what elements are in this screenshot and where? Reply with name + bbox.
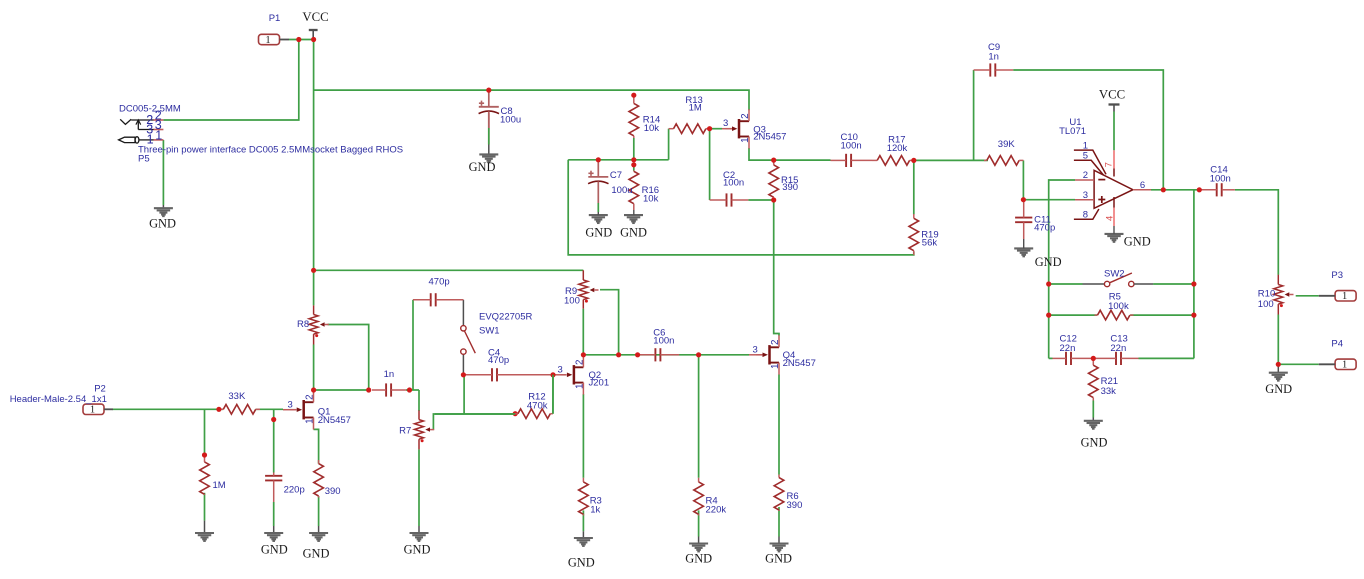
junction C4/SW1: [461, 372, 466, 377]
svg-text:P4: P4: [1331, 338, 1343, 349]
junction SW2 right: [1191, 281, 1196, 317]
svg-text:1: 1: [305, 418, 316, 423]
junction Q3 gate node: [707, 126, 712, 131]
wire: 220p branch: [273, 409, 275, 472]
wire: C2 right lead to R15 node: [748, 199, 773, 201]
svg-text:5: 5: [1083, 151, 1088, 162]
ground GND C11: [1014, 248, 1061, 268]
wire: Q1 source jog down to 390: [314, 429, 319, 463]
wire: R4 lower lead to GND: [698, 510, 700, 543]
svg-text:TL071: TL071: [1059, 126, 1086, 137]
svg-text:GND: GND: [261, 542, 288, 556]
capacitor C6 100n: [638, 328, 680, 362]
svg-text:2N5457: 2N5457: [318, 415, 351, 426]
wire: Q4 source down to R6: [778, 375, 780, 475]
svg-text:GND: GND: [685, 551, 712, 565]
wire: 1M lower lead to GND: [204, 493, 206, 533]
svg-text:3: 3: [723, 118, 728, 129]
svg-text:GND: GND: [1265, 382, 1292, 396]
transistor Q4 2N5457: [749, 335, 816, 374]
capacitor C13 22n: [1093, 334, 1138, 365]
wire: R7 lower lead to GND: [418, 449, 420, 533]
junction C6 left: [635, 352, 640, 357]
svg-text:2: 2: [740, 113, 751, 118]
wire: Q3 source to C10/R15: [749, 148, 831, 160]
svg-text:1: 1: [1342, 291, 1347, 302]
junction R16 bus: [631, 157, 636, 167]
resistor 33K input: [219, 391, 260, 414]
connector P1: [259, 13, 290, 46]
junction 1n right: [407, 387, 412, 392]
power VCC top: [302, 10, 328, 40]
svg-text:P1: P1: [269, 13, 281, 24]
svg-text:GND: GND: [568, 555, 595, 569]
svg-text:1: 1: [265, 35, 270, 46]
transistor Q3 2N5457: [722, 109, 786, 148]
wire: VCC node down to DC005 pin2: [163, 40, 298, 121]
junction 1M tap: [202, 452, 207, 457]
connector P3: [1319, 270, 1356, 302]
junction P4 node: [1276, 362, 1281, 367]
svg-text:1: 1: [1342, 360, 1347, 371]
capacitor 470p top: [413, 276, 463, 306]
trimmer R9: [564, 270, 599, 308]
junction R12 left: [513, 411, 518, 416]
junction 1n left: [366, 387, 371, 392]
svg-text:100u: 100u: [611, 185, 632, 196]
ground GND 220p: [261, 533, 288, 556]
svg-text:6: 6: [1140, 180, 1145, 191]
wire: R9 bottom to Q2 drain node: [582, 309, 584, 355]
svg-text:22n: 22n: [1060, 343, 1076, 354]
svg-text:P2: P2: [94, 383, 106, 394]
wire: R17 right to 39K: [914, 159, 988, 161]
svg-text:1M: 1M: [689, 102, 702, 113]
wire: 1M branch: [204, 409, 206, 455]
trimmer R7: [399, 410, 434, 449]
wire: R14 bottom to bus: [633, 138, 635, 160]
wire: P1 to VCC node: [289, 39, 314, 41]
svg-text:3: 3: [1083, 190, 1088, 201]
junction 33K left: [216, 407, 221, 412]
junction P1/VCC: [296, 37, 316, 42]
resistor 1M input: [200, 455, 226, 495]
junction C8 rail: [486, 88, 491, 93]
junction R15 bottom: [771, 197, 776, 202]
wire: Q3 gate node down to C2: [709, 129, 711, 200]
wire: 220p lower lead to GND: [273, 502, 275, 533]
svg-text:SW1: SW1: [479, 326, 500, 337]
svg-text:GND: GND: [469, 160, 496, 174]
wire: R19 top branch: [913, 160, 915, 214]
svg-text:GND: GND: [765, 551, 792, 565]
svg-text:100k: 100k: [1108, 301, 1129, 312]
wire: C9 left vertical: [973, 70, 975, 160]
svg-text:100: 100: [564, 295, 580, 306]
svg-text:3: 3: [558, 364, 563, 375]
junction R14 top: [631, 93, 636, 98]
svg-text:33K: 33K: [228, 391, 246, 402]
wire: SW2 row left: [1049, 283, 1083, 285]
svg-text:10k: 10k: [644, 123, 660, 134]
svg-text:P3: P3: [1331, 270, 1343, 281]
junction Q2 drain: [581, 352, 586, 357]
svg-text:1n: 1n: [988, 51, 999, 62]
wire: +input node to op-amp pin3: [1023, 199, 1075, 201]
svg-text:1n: 1n: [384, 369, 395, 380]
svg-text:GND: GND: [1124, 235, 1151, 249]
resistor R4 220k: [694, 478, 727, 516]
ground GND R21: [1081, 421, 1108, 450]
junction output/C9: [1161, 187, 1166, 192]
transistor Q1 2N5457: [283, 390, 351, 429]
junction R15 top: [771, 158, 776, 163]
svg-text:1: 1: [574, 384, 585, 389]
connector P5 DC005 jack: [119, 103, 403, 164]
svg-text:1: 1: [740, 137, 751, 142]
svg-text:Header-Male-2.54_1x1: Header-Male-2.54_1x1: [10, 394, 107, 405]
svg-text:470p: 470p: [1034, 223, 1055, 234]
svg-text:GND: GND: [404, 542, 431, 556]
wire: P4 node to P4: [1278, 363, 1319, 365]
wire: 39K right corner down to +input node: [1022, 160, 1024, 199]
svg-text:220p: 220p: [284, 485, 305, 496]
resistor R14 10k: [629, 95, 660, 138]
svg-text:2: 2: [1083, 170, 1088, 181]
wire: C14 right to R10: [1235, 190, 1278, 275]
connector P4: [1319, 338, 1356, 370]
svg-text:470p: 470p: [429, 276, 450, 287]
switch SW2: [1083, 268, 1154, 286]
capacitor C4 470p: [463, 347, 550, 381]
capacitor C2 100n: [710, 170, 749, 207]
svg-text:470k: 470k: [527, 400, 548, 411]
svg-text:Three-pin power interface DC00: Three-pin power interface DC005 2.5MMsoc…: [138, 144, 403, 155]
resistor R21 33k: [1089, 358, 1119, 400]
svg-text:1: 1: [155, 128, 162, 142]
wire: Q1 drain node row: [314, 389, 369, 391]
resistor R12 470k: [435, 375, 553, 419]
wire: R9 feed from VCC: [314, 269, 584, 271]
svg-text:GND: GND: [1081, 435, 1108, 449]
svg-text:8: 8: [1083, 209, 1088, 220]
resistor R13 1M: [669, 95, 710, 133]
svg-text:390: 390: [782, 182, 798, 193]
svg-text:GND: GND: [1035, 255, 1062, 269]
wire: Q3 gate: [710, 128, 722, 130]
trimmer R10: [1258, 275, 1294, 365]
resistor R16 10k: [629, 165, 659, 215]
wire: R21 lower lead to GND: [1092, 401, 1094, 421]
svg-text:120k: 120k: [887, 143, 908, 154]
svg-text:100n: 100n: [723, 177, 744, 188]
wire: 470p right corner to SW1: [462, 300, 464, 326]
svg-text:220k: 220k: [706, 505, 727, 516]
ground GND C7: [585, 215, 612, 240]
capacitor C14 100n: [1199, 165, 1235, 197]
svg-text:GND: GND: [149, 216, 176, 230]
junction output/C14: [1197, 187, 1202, 192]
svg-text:100u: 100u: [500, 114, 521, 125]
wire: C9 top loop: [1013, 70, 1163, 190]
transistor Q2 J201: [553, 355, 609, 394]
ground GND R4: [685, 544, 712, 566]
wire: feedback box left/bottom: [568, 160, 914, 255]
junction R9 feed: [311, 268, 316, 273]
wire: R6 lower lead to GND: [778, 507, 780, 544]
wire: R5 row left: [1049, 314, 1098, 316]
junction R17/R19: [911, 158, 916, 163]
ground GND R7: [404, 533, 431, 556]
wire: output down to SW2 right: [1193, 190, 1195, 359]
svg-text:SW2: SW2: [1104, 268, 1125, 279]
connector P2: [10, 383, 113, 415]
resistor R19 56k: [909, 214, 939, 255]
wire: R10 wiper to P3: [1296, 295, 1319, 297]
junction C12/C13/R21: [1091, 356, 1096, 361]
svg-text:P5: P5: [138, 153, 150, 164]
switch SW1 EVQ22705R: [461, 311, 533, 354]
junction C6 right / Q4 gate node: [696, 352, 701, 357]
svg-text:100n: 100n: [653, 336, 674, 347]
capacitor 1n interstage: [372, 369, 406, 396]
junction SW2 left: [1046, 281, 1051, 317]
junction C7 bus: [596, 157, 601, 162]
svg-text:2N5457: 2N5457: [783, 358, 816, 369]
ground GND R6: [765, 544, 792, 566]
svg-text:3: 3: [288, 399, 293, 410]
svg-text:VCC: VCC: [1099, 87, 1125, 101]
wire: 390 lower lead to GND: [318, 496, 320, 533]
svg-text:39K: 39K: [998, 139, 1016, 150]
capacitor C11 470p: [1015, 200, 1055, 249]
svg-text:390: 390: [325, 486, 341, 497]
wire: 470p left vertical: [412, 300, 414, 390]
junction 220p tap: [271, 417, 276, 422]
power VCC op-amp: [1099, 87, 1125, 150]
svg-text:2: 2: [305, 394, 316, 399]
wire: DC005 pin1 to GND: [162, 140, 164, 208]
svg-text:1: 1: [770, 364, 781, 369]
svg-text:1M: 1M: [213, 480, 226, 491]
wire: C4 right to Q2 gate node: [550, 374, 553, 376]
capacitor C12 22n: [1053, 334, 1094, 365]
resistor R15 390: [769, 160, 799, 200]
ground GND P4 node: [1265, 373, 1292, 397]
capacitor C9 1n: [974, 42, 1014, 77]
wire: Q2 drain node row: [583, 354, 749, 356]
svg-text:GND: GND: [620, 226, 647, 240]
wire: R7 wiper path: [433, 375, 515, 430]
svg-text:GND: GND: [585, 226, 612, 240]
junction Q2 gate: [550, 372, 555, 377]
svg-text:56k: 56k: [922, 238, 938, 249]
svg-text:VCC: VCC: [302, 10, 328, 24]
wire: VCC top rail to Q3 drain: [314, 90, 749, 110]
resistor R6 390: [774, 475, 802, 512]
svg-text:33k: 33k: [1101, 386, 1117, 397]
wire: R3 lower lead to GND: [582, 510, 584, 538]
svg-text:R7: R7: [399, 426, 411, 437]
svg-text:R8: R8: [297, 319, 309, 330]
svg-text:3: 3: [753, 344, 758, 355]
svg-text:2: 2: [574, 360, 585, 365]
wire: R5 row right: [1130, 314, 1194, 316]
ground GND DC005: [149, 208, 176, 230]
svg-text:100n: 100n: [1210, 174, 1231, 185]
resistor R17 120k: [872, 135, 914, 166]
svg-text:390: 390: [787, 500, 803, 511]
svg-text:7: 7: [1104, 162, 1115, 167]
wire: op-amp output to C14: [1151, 189, 1199, 191]
svg-text:100n: 100n: [841, 141, 862, 152]
wire: P2 to 33K: [113, 408, 224, 410]
wire: R9 wiper jog: [600, 290, 619, 355]
ground GND 390: [303, 533, 330, 561]
wire: R15 node down to Q4 drain: [774, 200, 779, 336]
wire: C8 lower lead to GND: [488, 113, 490, 154]
trimmer R8: [297, 305, 329, 390]
capacitor 220p: [265, 473, 305, 503]
svg-text:J201: J201: [589, 377, 610, 388]
svg-text:EVQ22705R: EVQ22705R: [479, 311, 532, 322]
svg-text:10k: 10k: [643, 194, 659, 205]
wire: VCC vertical rail down to R8: [313, 40, 315, 306]
ground GND C8: [469, 154, 499, 173]
wire: op-amp pin2 feedback left vertical: [1049, 180, 1075, 358]
capacitor C8 100u: [479, 92, 522, 129]
svg-text:22n: 22n: [1110, 343, 1126, 354]
ground GND op-amp: [1105, 234, 1151, 249]
svg-text:1k: 1k: [590, 505, 600, 516]
svg-text:2N5457: 2N5457: [753, 132, 786, 143]
resistor 390 Q1 source: [314, 460, 341, 498]
wire: 1n right node jog: [406, 389, 419, 391]
svg-text:470p: 470p: [488, 355, 509, 366]
wire: 33K to Q1 gate: [256, 408, 283, 410]
svg-text:C7: C7: [610, 170, 622, 181]
wire: P4 node GND stem: [1277, 364, 1279, 372]
wire: Q2 source down to R3: [582, 394, 584, 478]
svg-text:100: 100: [1258, 299, 1274, 310]
wire: SW1 bottom to C4 node: [462, 354, 464, 375]
resistor R5 100k: [1095, 291, 1134, 320]
wire: R7 top lead: [418, 390, 420, 411]
svg-text:1: 1: [90, 405, 95, 416]
wire: SW2 row right: [1153, 283, 1194, 285]
junction R9 wiper node: [616, 352, 621, 357]
op-amp U1 TL071: [1059, 117, 1151, 234]
wire: Q2 gate node down to R12: [552, 375, 554, 414]
svg-text:GND: GND: [303, 547, 330, 561]
junction op-amp +input: [1021, 197, 1026, 202]
ground GND R16: [620, 215, 647, 240]
ground GND R3: [568, 538, 595, 569]
resistor 39K: [984, 139, 1023, 165]
capacitor C10 100n: [831, 132, 873, 167]
junction Q1 drain node: [311, 387, 316, 392]
capacitor C7 100u: [588, 161, 632, 216]
wire: C12/C13 row: [1049, 357, 1194, 359]
wire: C6 right node down to R4: [698, 355, 700, 478]
svg-text:2: 2: [770, 340, 781, 345]
resistor R3 1k: [579, 478, 602, 516]
ground 1M (no label): [195, 533, 214, 541]
wire: R8 wiper jog: [328, 325, 369, 391]
svg-text:4: 4: [1105, 216, 1116, 221]
wire: bus C7/R16 horizontal: [568, 159, 668, 161]
svg-text:R10: R10: [1258, 288, 1275, 299]
wire: R13 left corner: [668, 129, 670, 160]
